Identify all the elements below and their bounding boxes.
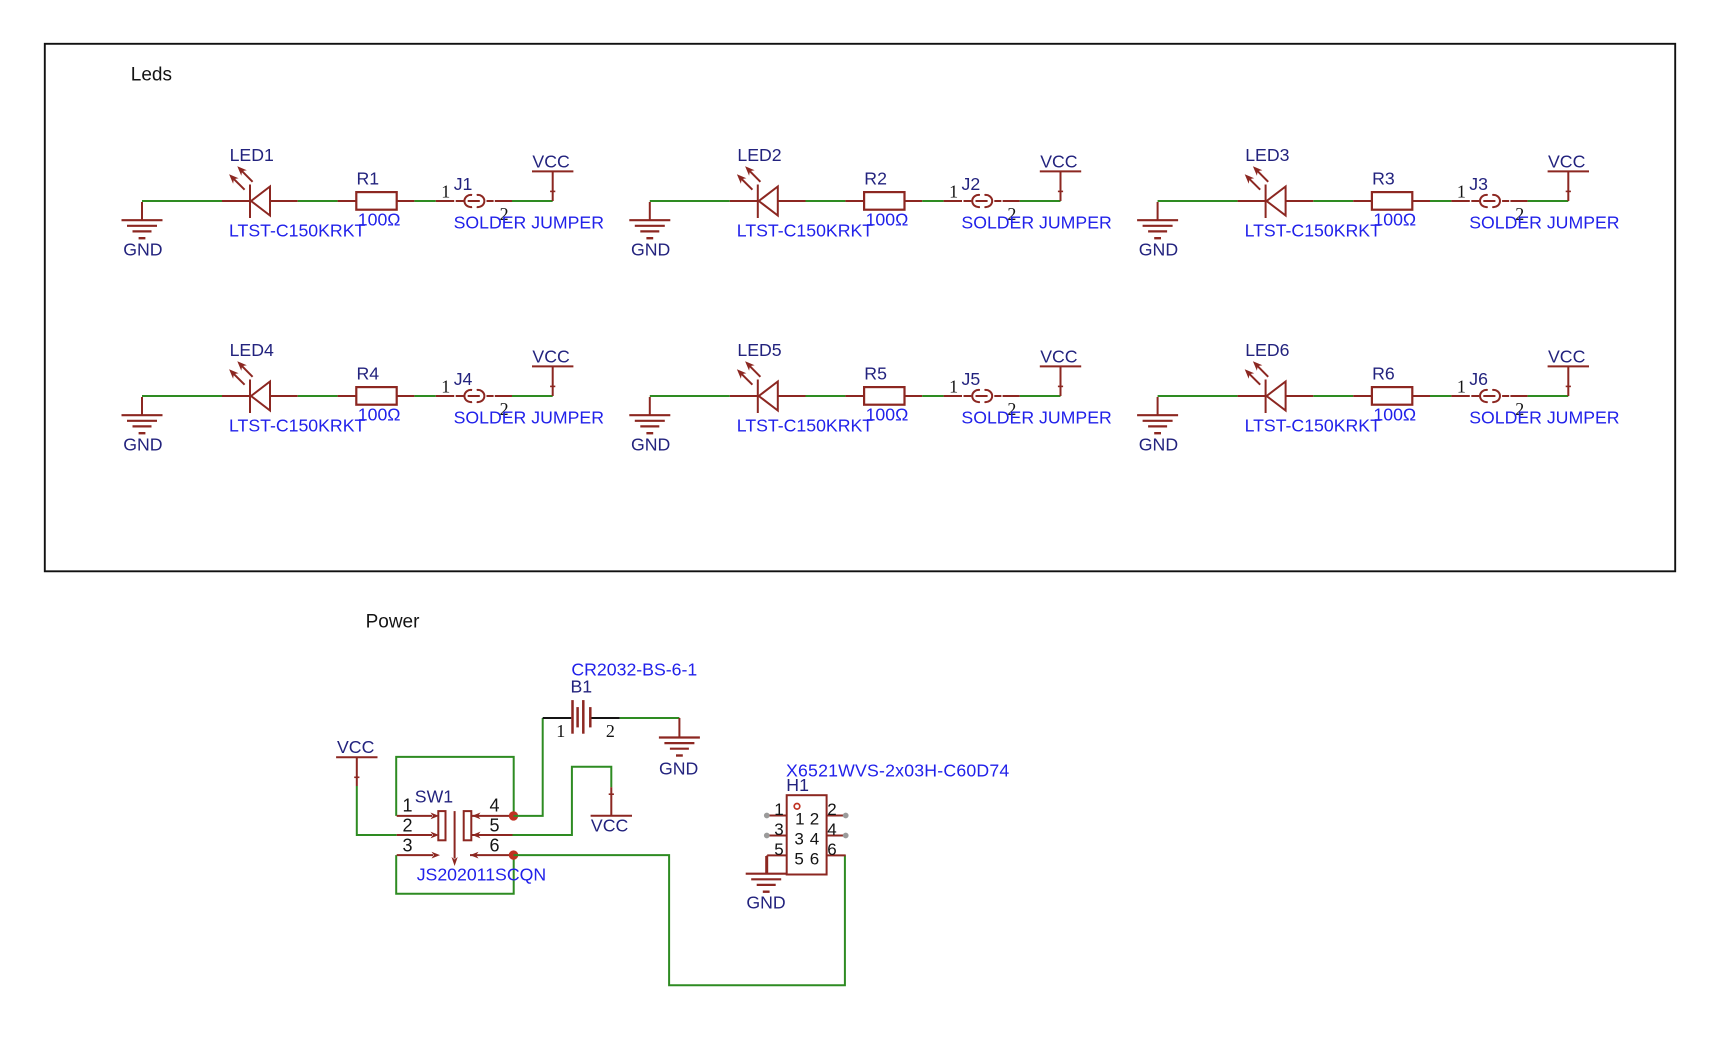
section label Power	[366, 612, 421, 633]
svg-text:VCC: VCC	[591, 816, 629, 836]
H1 outside pin number 2	[827, 800, 836, 819]
H1 inside pin number 6	[810, 849, 819, 868]
J6 value SOLDER JUMPER	[1469, 408, 1619, 428]
J6 pin 2 number	[1515, 399, 1524, 419]
svg-text:R3: R3	[1372, 169, 1395, 189]
LED6 designator	[1245, 340, 1289, 360]
svg-text:R2: R2	[864, 169, 887, 189]
svg-text:1: 1	[949, 377, 958, 397]
solder jumper J3	[1451, 195, 1527, 207]
svg-text:J3: J3	[1469, 174, 1488, 194]
net label GND (LED5 circuit)	[631, 435, 670, 455]
R5 designator	[864, 364, 887, 384]
svg-text:VCC: VCC	[532, 347, 570, 367]
wire R5 to J5	[922, 395, 943, 397]
SW1 value JS202011SCQN	[417, 865, 546, 885]
svg-text:1: 1	[1457, 182, 1466, 202]
H1 inside pin number 2	[810, 810, 819, 829]
J2 designator	[962, 174, 981, 194]
LED LED2	[730, 166, 806, 218]
H1 outside pin number 6	[827, 840, 836, 859]
J2 pin 1 number	[949, 182, 958, 202]
wire J6 to VCC	[1528, 395, 1569, 397]
svg-text:VCC: VCC	[532, 152, 570, 172]
B1 designator	[571, 677, 593, 697]
net label VCC (switch output)	[591, 816, 629, 836]
svg-text:SOLDER JUMPER: SOLDER JUMPER	[1469, 213, 1619, 233]
J5 designator	[962, 369, 981, 389]
svg-text:GND: GND	[659, 759, 698, 779]
ground (LED2 circuit)	[629, 202, 670, 238]
H1 pin 4 no-connect dot	[843, 833, 849, 839]
LED3 designator	[1245, 145, 1289, 165]
svg-text:CR2032-BS-6-1: CR2032-BS-6-1	[571, 660, 697, 680]
R4 value 100&#937;	[358, 405, 401, 425]
svg-text:6: 6	[827, 840, 836, 859]
J5 pin 1 number	[949, 377, 958, 397]
svg-text:JS202011SCQN: JS202011SCQN	[417, 865, 546, 885]
solder jumper J4	[436, 390, 512, 402]
switch SW1	[397, 811, 513, 866]
wire LED2 to R2	[806, 200, 846, 202]
LED3 value LTST-C150KRKT	[1245, 221, 1381, 241]
svg-text:LED3: LED3	[1245, 145, 1289, 165]
junction dot at SW1 pin 6	[509, 850, 518, 859]
svg-text:GND: GND	[746, 893, 785, 913]
wire H1 pin 5 to GND	[766, 855, 768, 873]
net label GND (LED1 circuit)	[123, 240, 162, 260]
LED LED4	[222, 361, 298, 413]
svg-text:GND: GND	[631, 435, 670, 455]
SW1 designator	[415, 787, 453, 807]
wire R3 to J3	[1430, 200, 1451, 202]
svg-text:1: 1	[402, 796, 412, 816]
wire J2 to VCC	[1020, 200, 1061, 202]
net label GND (LED6 circuit)	[1139, 435, 1178, 455]
LED4 designator	[230, 340, 274, 360]
junction dot at SW1 pin 4	[509, 811, 518, 820]
J1 pin 2 number	[500, 204, 509, 224]
svg-text:6: 6	[810, 849, 819, 868]
svg-text:LTST-C150KRKT: LTST-C150KRKT	[737, 221, 873, 241]
svg-text:LTST-C150KRKT: LTST-C150KRKT	[229, 221, 365, 241]
VCC power symbol (LED2 circuit)	[1040, 171, 1081, 201]
svg-text:SW1: SW1	[415, 787, 453, 807]
wire SW1 pin 3 to pin 6 junction (bottom loop)	[396, 855, 514, 894]
svg-text:GND: GND	[631, 240, 670, 260]
svg-text:LTST-C150KRKT: LTST-C150KRKT	[229, 416, 365, 436]
J5 value SOLDER JUMPER	[961, 408, 1111, 428]
H1 inside pin number 1	[795, 810, 804, 829]
net label VCC (LED4 circuit)	[532, 347, 570, 367]
LED1 value LTST-C150KRKT	[229, 221, 365, 241]
R6 value 100&#937;	[1373, 405, 1416, 425]
svg-text:R4: R4	[357, 364, 380, 384]
H1 pin 1 no-connect dot	[764, 813, 770, 819]
header H1	[767, 795, 846, 874]
svg-text:3: 3	[402, 835, 412, 855]
B1 pin 1 number	[556, 721, 565, 741]
svg-text:6: 6	[490, 835, 500, 855]
svg-text:100Ω: 100Ω	[1373, 210, 1416, 230]
net label GND (header H1)	[746, 893, 785, 913]
ground (LED3 circuit)	[1137, 202, 1178, 238]
H1 outside pin number 1	[774, 800, 783, 819]
J5 pin 2 number	[1007, 399, 1016, 419]
ground (LED5 circuit)	[629, 397, 670, 433]
wire GND to LED5	[650, 395, 730, 397]
R5 value 100&#937;	[866, 405, 909, 425]
svg-text:SOLDER JUMPER: SOLDER JUMPER	[961, 408, 1111, 428]
svg-text:VCC: VCC	[337, 737, 375, 757]
J2 pin 2 number	[1007, 204, 1016, 224]
B1 value CR2032-BS-6-1	[571, 660, 697, 680]
section label Leds	[131, 65, 172, 86]
svg-text:100Ω: 100Ω	[866, 210, 909, 230]
R3 designator	[1372, 169, 1395, 189]
net label GND (LED4 circuit)	[123, 435, 162, 455]
wire R1 to J1	[414, 200, 435, 202]
J1 pin 1 number	[441, 182, 450, 202]
svg-text:B1: B1	[571, 677, 593, 697]
resistor R1	[338, 192, 415, 210]
svg-text:3: 3	[794, 829, 803, 848]
ground (LED4 circuit)	[122, 397, 163, 433]
svg-text:2: 2	[402, 815, 412, 835]
LED2 value LTST-C150KRKT	[737, 221, 873, 241]
net label VCC (LED3 circuit)	[1548, 152, 1586, 172]
svg-text:X6521WVS-2x03H-C60D74: X6521WVS-2x03H-C60D74	[786, 761, 1009, 781]
wire GND to LED2	[650, 200, 730, 202]
ground (LED6 circuit)	[1137, 397, 1178, 433]
resistor R3	[1353, 192, 1430, 210]
net label GND (LED2 circuit)	[631, 240, 670, 260]
svg-text:LED5: LED5	[737, 340, 781, 360]
svg-text:VCC: VCC	[1548, 347, 1586, 367]
solder jumper J6	[1451, 390, 1527, 402]
svg-text:J4: J4	[454, 369, 473, 389]
wire GND to LED1	[142, 200, 222, 202]
svg-text:100Ω: 100Ω	[358, 210, 401, 230]
svg-text:LED2: LED2	[737, 145, 781, 165]
J4 pin 1 number	[441, 377, 450, 397]
svg-text:Leds: Leds	[131, 65, 172, 86]
VCC power symbol (LED1 circuit)	[532, 171, 573, 201]
VCC power symbol (LED3 circuit)	[1548, 171, 1589, 201]
svg-text:SOLDER JUMPER: SOLDER JUMPER	[454, 213, 604, 233]
ground (LED1 circuit)	[122, 202, 163, 238]
svg-text:LED6: LED6	[1245, 340, 1289, 360]
wire B1 pin 2 to GND	[620, 717, 680, 719]
H1 pin 3 no-connect dot	[764, 833, 770, 839]
wire VCC to SW1 pin 2	[357, 786, 397, 835]
J3 pin 1 number	[1457, 182, 1466, 202]
SW1 pin 2 number	[402, 815, 412, 835]
svg-text:1: 1	[949, 182, 958, 202]
H1 designator	[786, 775, 809, 795]
svg-text:1: 1	[1457, 377, 1466, 397]
svg-text:2: 2	[606, 721, 615, 741]
R1 value 100&#937;	[358, 210, 401, 230]
wire J1 to VCC	[512, 200, 553, 202]
LED6 value LTST-C150KRKT	[1245, 416, 1381, 436]
H1 outside pin number 3	[774, 820, 783, 839]
svg-text:1: 1	[556, 721, 565, 741]
SW1 pin 4 number	[490, 796, 500, 816]
svg-text:GND: GND	[1139, 435, 1178, 455]
solder jumper J5	[944, 390, 1020, 402]
J1 value SOLDER JUMPER	[454, 213, 604, 233]
svg-text:Power: Power	[366, 612, 421, 633]
H1 inside pin number 4	[810, 829, 819, 848]
H1 pin 2 no-connect dot	[843, 813, 849, 819]
svg-text:100Ω: 100Ω	[358, 405, 401, 425]
wire J3 to VCC	[1528, 200, 1569, 202]
wire LED3 to R3	[1313, 200, 1353, 202]
LED4 value LTST-C150KRKT	[229, 416, 365, 436]
wire LED1 to R1	[298, 200, 338, 202]
svg-text:J1: J1	[454, 174, 473, 194]
LED2 designator	[737, 145, 781, 165]
svg-text:LED1: LED1	[230, 145, 274, 165]
wire SW1 pin 4 junction to battery B1 pin 1	[514, 718, 543, 816]
svg-text:LTST-C150KRKT: LTST-C150KRKT	[737, 416, 873, 436]
svg-text:2: 2	[827, 800, 836, 819]
R6 designator	[1372, 364, 1395, 384]
svg-text:1: 1	[441, 182, 450, 202]
svg-text:GND: GND	[123, 435, 162, 455]
svg-text:R6: R6	[1372, 364, 1395, 384]
svg-text:GND: GND	[123, 240, 162, 260]
svg-text:SOLDER JUMPER: SOLDER JUMPER	[1469, 408, 1619, 428]
solder jumper J1	[436, 195, 512, 207]
svg-text:VCC: VCC	[1040, 347, 1078, 367]
svg-text:SOLDER JUMPER: SOLDER JUMPER	[961, 213, 1111, 233]
wire SW1 pin 5 to VCC flag	[513, 767, 612, 835]
resistor R5	[845, 387, 922, 405]
H1 outside pin number 5	[774, 840, 783, 859]
svg-text:5: 5	[490, 815, 500, 835]
LED LED3	[1238, 166, 1314, 218]
net label VCC (LED2 circuit)	[1040, 152, 1078, 172]
svg-text:4: 4	[827, 820, 836, 839]
B1 pin 2 number	[606, 721, 615, 741]
svg-text:5: 5	[774, 840, 783, 859]
net label VCC (LED5 circuit)	[1040, 347, 1078, 367]
ground (header H1)	[746, 856, 787, 892]
J6 pin 1 number	[1457, 377, 1466, 397]
svg-text:4: 4	[810, 829, 819, 848]
wire SW1 pin 6 junction to header H1 pin 6	[514, 855, 845, 985]
svg-text:LED4: LED4	[230, 340, 274, 360]
J4 value SOLDER JUMPER	[454, 408, 604, 428]
net label VCC (LED6 circuit)	[1548, 347, 1586, 367]
resistor R4	[338, 387, 415, 405]
H1 inside pin number 3	[794, 829, 803, 848]
svg-text:1: 1	[441, 377, 450, 397]
resistor R6	[1353, 387, 1430, 405]
wire SW1 pin 1 to pin 4 junction (top loop)	[396, 757, 514, 816]
solder jumper J2	[944, 195, 1020, 207]
wire GND to LED3	[1158, 200, 1238, 202]
svg-text:R5: R5	[864, 364, 887, 384]
R3 value 100&#937;	[1373, 210, 1416, 230]
wire J5 to VCC	[1020, 395, 1061, 397]
J4 pin 2 number	[500, 399, 509, 419]
svg-text:LTST-C150KRKT: LTST-C150KRKT	[1245, 221, 1381, 241]
svg-text:J6: J6	[1469, 369, 1488, 389]
svg-text:2: 2	[810, 810, 819, 829]
net label GND (LED3 circuit)	[1139, 240, 1178, 260]
ground (battery)	[659, 718, 700, 756]
J3 designator	[1469, 174, 1488, 194]
svg-text:1: 1	[795, 810, 804, 829]
Leds section border box	[45, 44, 1675, 572]
svg-text:SOLDER JUMPER: SOLDER JUMPER	[454, 408, 604, 428]
J3 value SOLDER JUMPER	[1469, 213, 1619, 233]
VCC power symbol (switch input)	[336, 757, 377, 786]
svg-text:VCC: VCC	[1040, 152, 1078, 172]
wire GND to LED4	[142, 395, 222, 397]
J2 value SOLDER JUMPER	[961, 213, 1111, 233]
LED5 designator	[737, 340, 781, 360]
svg-text:VCC: VCC	[1548, 152, 1586, 172]
net label VCC (LED1 circuit)	[532, 152, 570, 172]
LED LED1	[222, 166, 298, 218]
H1 outside pin number 4	[827, 820, 836, 839]
wire LED5 to R5	[806, 395, 846, 397]
R2 value 100&#937;	[866, 210, 909, 230]
svg-text:J5: J5	[962, 369, 981, 389]
R2 designator	[864, 169, 887, 189]
LED LED6	[1238, 361, 1314, 413]
svg-text:J2: J2	[962, 174, 981, 194]
R1 designator	[357, 169, 380, 189]
svg-text:5: 5	[794, 849, 803, 868]
H1 value X6521WVS-2x03H-C60D74	[786, 761, 1009, 781]
resistor R2	[845, 192, 922, 210]
svg-text:1: 1	[774, 800, 783, 819]
LED1 designator	[230, 145, 274, 165]
battery B1	[543, 700, 620, 734]
SW1 pin 1 number	[402, 796, 412, 816]
wire R4 to J4	[414, 395, 435, 397]
net label VCC (switch input)	[337, 737, 375, 757]
net label GND (battery)	[659, 759, 698, 779]
svg-text:LTST-C150KRKT: LTST-C150KRKT	[1245, 416, 1381, 436]
svg-text:3: 3	[774, 820, 783, 839]
svg-text:100Ω: 100Ω	[866, 405, 909, 425]
H1 pin 1 indicator circle	[794, 804, 800, 810]
VCC power symbol (LED5 circuit)	[1040, 366, 1081, 396]
wire J4 to VCC	[512, 395, 553, 397]
wire R2 to J2	[922, 200, 943, 202]
SW1 pin 3 number	[402, 835, 412, 855]
J3 pin 2 number	[1515, 204, 1524, 224]
svg-text:100Ω: 100Ω	[1373, 405, 1416, 425]
H1 inside pin number 5	[794, 849, 803, 868]
wire LED4 to R4	[298, 395, 338, 397]
svg-text:GND: GND	[1139, 240, 1178, 260]
wire GND to LED6	[1158, 395, 1238, 397]
J1 designator	[454, 174, 473, 194]
svg-text:R1: R1	[357, 169, 380, 189]
VCC power symbol (LED6 circuit)	[1548, 366, 1589, 396]
LED5 value LTST-C150KRKT	[737, 416, 873, 436]
J6 designator	[1469, 369, 1488, 389]
LED LED5	[730, 361, 806, 413]
wire LED6 to R6	[1313, 395, 1353, 397]
SW1 pin 5 number	[490, 815, 500, 835]
svg-text:4: 4	[490, 796, 500, 816]
SW1 pin 6 number	[490, 835, 500, 855]
VCC power symbol (inverted, switch output)	[591, 787, 632, 816]
J4 designator	[454, 369, 473, 389]
wire R6 to J6	[1430, 395, 1451, 397]
VCC power symbol (LED4 circuit)	[532, 366, 573, 396]
R4 designator	[357, 364, 380, 384]
